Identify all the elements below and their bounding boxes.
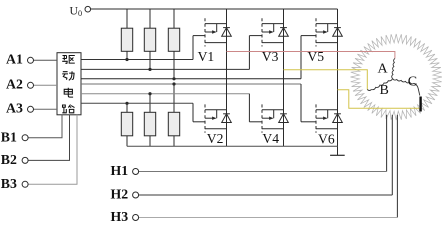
wire line5 to R5: [149, 94, 151, 113]
svg-text:V2: V2: [207, 131, 224, 146]
svg-text:H3: H3: [111, 209, 129, 224]
wire R6 to bottom rail: [173, 136, 175, 146]
svg-text:B2: B2: [1, 152, 17, 167]
wire rail to R1: [126, 9, 128, 28]
transistor V3: [261, 18, 263, 46]
terminal H1: [133, 169, 139, 175]
svg-text:B3: B3: [1, 176, 17, 191]
wire R3 to line3: [173, 51, 175, 79]
svg-text:H2: H2: [111, 186, 129, 201]
winding B: [372, 79, 393, 90]
junction node line4: [172, 82, 175, 85]
drive box label 驱: [62, 56, 75, 64]
resistor R3: [168, 28, 179, 51]
wire H3: [139, 217, 398, 219]
winding A: [392, 59, 395, 79]
svg-text:B: B: [380, 83, 389, 98]
transistor V2: [204, 104, 206, 132]
gate line 1: [81, 59, 193, 61]
transistor V5: [315, 18, 317, 46]
wire A3: [34, 108, 57, 110]
wire line4 to R6: [173, 84, 175, 112]
terminal B2: [22, 157, 28, 163]
resistor R2: [144, 28, 155, 51]
svg-text:V6: V6: [318, 131, 335, 146]
junction node line6: [125, 102, 128, 105]
drive box label 动: [62, 71, 74, 80]
wire line6 to R4: [126, 103, 128, 112]
svg-text:H1: H1: [111, 163, 129, 178]
wire B2: [28, 115, 69, 161]
terminal H3: [133, 215, 139, 221]
transistor V1: [204, 18, 206, 46]
wire A1: [34, 59, 57, 61]
ground: [337, 146, 339, 155]
wire phase B (yellow): [284, 70, 368, 90]
wire R2 to line2: [149, 51, 151, 69]
gate line 3: [81, 78, 301, 80]
wire rail to R2: [149, 9, 151, 28]
gate line 6: [81, 102, 193, 104]
resistor R6: [168, 112, 179, 136]
winding C: [393, 79, 415, 84]
svg-text:V1: V1: [198, 49, 215, 64]
wire H1: [139, 171, 387, 173]
wire hall H1 vertical: [386, 115, 388, 172]
wire R1 to line1: [126, 51, 128, 59]
drive box label 电: [64, 88, 73, 97]
wire A2: [34, 84, 57, 86]
resistor R1: [121, 28, 132, 51]
motor stator ring: [350, 34, 442, 120]
wire gate V6: [301, 121, 316, 123]
svg-text:A3: A3: [6, 100, 23, 115]
drive box label 路: [62, 105, 74, 113]
wire H2: [139, 194, 393, 196]
resistor R5: [144, 112, 155, 136]
wire B3: [28, 115, 77, 185]
wire rail to R3: [173, 9, 175, 28]
svg-text:A2: A2: [6, 76, 23, 91]
terminal B3: [22, 181, 28, 187]
junction node line1: [125, 58, 128, 61]
svg-text:V4: V4: [262, 131, 279, 146]
wire bridge column A: [226, 9, 228, 146]
transistor V6: [315, 104, 317, 132]
gate line 2: [81, 68, 249, 70]
gate line 4: [81, 83, 301, 85]
wire bridge column C: [337, 9, 339, 146]
gate line 5: [81, 93, 249, 95]
junction node line3: [172, 77, 175, 80]
wire gate V3: [249, 35, 262, 37]
svg-text:U0: U0: [70, 3, 83, 18]
wire R5 to bottom rail: [149, 136, 151, 146]
wire R4 to bottom rail: [126, 136, 128, 146]
terminal H2: [133, 192, 139, 198]
terminal A2: [28, 82, 34, 88]
terminal B1: [22, 135, 28, 141]
wire B1: [28, 115, 62, 138]
wire gate V4: [249, 121, 262, 123]
svg-text:B1: B1: [1, 129, 17, 144]
svg-text:C: C: [408, 75, 417, 90]
motor lead C bar: [419, 97, 421, 112]
svg-text:A1: A1: [6, 51, 23, 66]
wire phase A (red): [227, 52, 395, 59]
junction node line2: [148, 68, 151, 71]
junction node line5: [148, 92, 151, 95]
wire gate V5: [301, 35, 316, 37]
terminal A1: [28, 57, 34, 63]
wire gate V2: [193, 121, 205, 123]
drive circuit box: [57, 53, 81, 115]
wire hall H2 vertical: [391, 115, 393, 195]
bottom source rail: [127, 145, 338, 147]
resistor R4: [121, 112, 132, 136]
top supply rail from U0: [91, 8, 338, 10]
terminal U0: [85, 6, 91, 12]
wire bridge column B: [283, 9, 285, 146]
transistor V4: [261, 104, 263, 132]
terminal A3: [28, 106, 34, 112]
svg-text:A: A: [378, 62, 389, 77]
wire gate V1: [193, 35, 205, 37]
wire phase C (yellow): [338, 90, 420, 108]
wire hall H3 vertical: [396, 115, 398, 218]
